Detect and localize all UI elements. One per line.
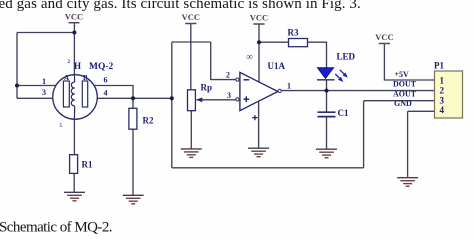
wire C1 top [326,91,328,112]
wire LED to output node [326,80,328,91]
wire loop left vertical [171,42,173,168]
resistor R1 [70,155,78,174]
op-amp minus input mark [244,79,250,81]
svg-text:Schematic of MQ-2.: Schematic of MQ-2. [0,219,112,235]
ground under C1 [316,149,337,158]
wire VCC1 stem + heater top [73,23,75,76]
svg-text:GND: GND [394,99,412,108]
svg-text:P1: P1 [434,61,444,71]
junction dot VCC1 node [72,31,76,35]
svg-text:3: 3 [440,95,445,105]
power VCC 4 [375,32,393,44]
op-amp output circle [278,89,281,92]
op-amp power plus mark [252,115,257,120]
wire opamp negative supply to ground [258,102,260,149]
svg-text:LED: LED [337,52,356,62]
svg-text:C1: C1 [338,108,349,118]
wire VCC2 stem to Rp [190,24,192,90]
wire AOUT riser [363,101,365,168]
resistor R3 [289,39,308,47]
ground of P1 [397,178,418,187]
wire left vertical to pins 1,3 [16,33,18,99]
connector P1 [435,71,463,118]
sensor MQ-2 body [53,75,98,120]
svg-text:4: 4 [104,89,108,98]
svg-text:2: 2 [440,86,445,96]
ground under R1 [64,192,85,201]
svg-text:2: 2 [226,71,230,80]
svg-text:R1: R1 [82,160,93,170]
svg-text:3: 3 [42,88,46,97]
junction dot pins 1-3 node [15,84,19,88]
wire pin 1 [17,85,57,87]
svg-text:VCC: VCC [250,13,268,23]
heater stub top [73,76,75,83]
power VCC 1 [65,12,83,23]
wire C1 to ground [326,117,328,149]
svg-text:Rp: Rp [201,83,213,93]
ground under Rp [181,149,202,158]
LED diode triangle [318,68,334,79]
wire VCC4 stem +5V to P1 [384,44,434,80]
junction dot VCC3 node [257,40,261,44]
power VCC 2 [182,12,200,24]
wire R2 to ground [132,129,134,195]
Rp wiper arrow [196,97,202,102]
svg-text:A: A [64,74,69,82]
wire Rp to ground [190,111,192,149]
svg-text:1: 1 [42,77,46,86]
svg-text:3: 3 [227,91,231,100]
wire VCC3 stem [258,25,260,82]
wire R3 to LED [308,42,327,68]
op-amp plus input mark [244,96,250,102]
wire heater bottom to R1 [73,119,75,154]
ground under op-amp [248,148,269,157]
op-amp pin 2 circle [236,78,239,81]
wire P1 ground drop [407,111,409,177]
power VCC 3 [250,13,268,25]
wire pin 4 [97,97,172,99]
LED light arrow 2 [335,74,340,79]
svg-text:B: B [83,74,88,82]
svg-text:VCC: VCC [182,12,200,22]
junction dot output node [325,89,329,93]
svg-text:1: 1 [440,76,445,86]
wire loop bottom horizontal [172,167,364,169]
resistor R2 [129,108,137,129]
svg-text:+5V: +5V [395,70,410,79]
LED cathode bar [317,79,335,81]
svg-text:AOUT: AOUT [393,89,417,98]
wire VCC1 top-left horizontal [17,32,74,34]
svg-text:ed gas and city gas. Its circu: ed gas and city gas. Its circuit schemat… [0,0,361,12]
wire loop top horizontal [172,41,211,43]
MQ-2 heater coil [71,82,74,106]
op-amp U1A [240,72,278,110]
svg-text:MQ-2: MQ-2 [89,62,114,72]
svg-text:VCC: VCC [65,12,83,22]
wire AOUT to P1 [364,100,435,102]
wire R1 to ground [73,173,75,192]
svg-text:6: 6 [104,76,108,85]
op-amp pin 3 circle [236,98,239,101]
svg-text:VCC: VCC [375,32,393,42]
svg-text:R3: R3 [288,28,299,38]
svg-text:2: 2 [68,60,71,65]
capacitor C1 [318,111,336,113]
svg-text:R2: R2 [143,116,154,126]
ground under R2 [123,195,144,204]
junction dot loop node [170,96,174,100]
svg-text:U1A: U1A [268,61,286,71]
svg-text:1: 1 [287,82,291,91]
LED light arrow 1 [340,70,345,75]
wire pin 6 [94,86,134,109]
wire to pin2 of opamp [211,42,236,80]
wire pin 3 [17,97,54,99]
potentiometer Rp [188,90,196,111]
MQ-2 electrode B [82,81,87,107]
MQ-2 electrode A [63,81,69,107]
wire opamp output DOUT to P1 [281,90,435,92]
svg-text:DOUT: DOUT [393,80,417,89]
heater stub bottom [73,106,75,119]
wire VCC3 to R3 [259,41,289,43]
wire Rp wiper to pin3 [197,99,236,101]
junction dot R2 top node [131,96,135,100]
svg-text:H: H [74,61,81,71]
svg-text:∞: ∞ [247,52,253,62]
svg-text:5: 5 [60,124,63,129]
wire GND of P1 [408,110,435,112]
svg-text:4: 4 [440,105,445,115]
